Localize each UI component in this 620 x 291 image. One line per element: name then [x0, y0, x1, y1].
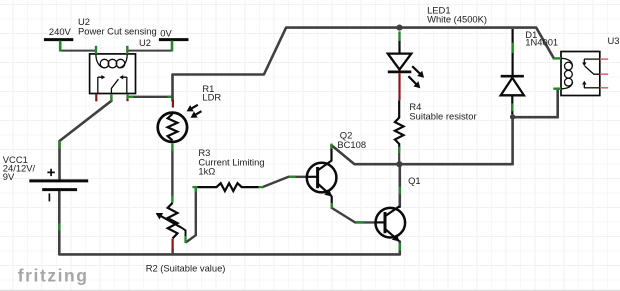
svg-text:Suitable resistor: Suitable resistor: [409, 111, 476, 122]
svg-text:LDR: LDR: [202, 91, 221, 102]
svg-text:9V: 9V: [3, 171, 15, 182]
svg-text:White (4500K): White (4500K): [427, 13, 487, 24]
svg-text:1kΩ: 1kΩ: [198, 166, 215, 177]
svg-text:BC108: BC108: [337, 139, 366, 150]
svg-text:U3: U3: [608, 35, 620, 46]
svg-text:Q1: Q1: [408, 175, 421, 186]
svg-text:0V: 0V: [160, 27, 172, 38]
svg-text:Power Cut sensing: Power Cut sensing: [78, 26, 157, 37]
svg-text:240V: 240V: [49, 26, 72, 37]
svg-text:fritzing: fritzing: [18, 265, 89, 285]
svg-text:R2 (Suitable value): R2 (Suitable value): [146, 263, 226, 274]
svg-text:1N4001: 1N4001: [525, 37, 558, 48]
svg-text:U2: U2: [139, 37, 151, 48]
